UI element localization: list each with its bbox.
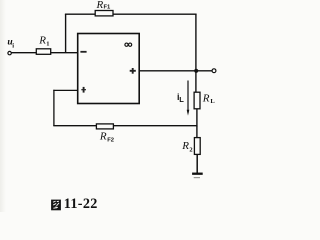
label R1 (38, 35, 49, 48)
svg-text:11-22: 11-22 (64, 196, 98, 212)
current iL arrow (187, 81, 190, 116)
ground (192, 174, 203, 178)
svg-text:R: R (181, 140, 189, 152)
op-amp U1 body (78, 34, 140, 104)
wire RF2 to right node (113, 125, 197, 127)
caption figure 11-22 (51, 196, 98, 212)
label RL (202, 93, 216, 106)
resistor RL (194, 92, 200, 109)
wire output node down to RL (195, 71, 197, 93)
op-amp gain infinity symbol (125, 43, 132, 46)
wire left corner to RF2 (53, 125, 96, 127)
wire junction up to RF1 (vertical) (65, 14, 67, 53)
junction dot output node (194, 69, 198, 73)
svg-text:R: R (38, 35, 46, 47)
op-amp non-inverting input plus sign (81, 87, 86, 93)
label RF1 (96, 0, 112, 11)
wire RF1 to right corner (113, 13, 197, 15)
wire RL to RF2 node (196, 109, 198, 127)
label iL (177, 92, 184, 104)
svg-text:L: L (179, 95, 184, 104)
resistor R2 (194, 138, 200, 155)
wire op-amp output to terminal (140, 70, 213, 72)
wire R1 to op-amp inverting input (51, 52, 78, 54)
svg-text:i: i (12, 42, 14, 49)
wire left vertical down to RF2 (53, 90, 55, 126)
resistor R1 (36, 49, 50, 55)
svg-text:R: R (96, 0, 104, 11)
wire top left to RF1 (65, 13, 96, 15)
svg-text:R: R (202, 93, 210, 105)
resistor RF1 (95, 11, 113, 16)
wire op-amp noninverting input to left corner (53, 89, 77, 91)
op-amp inverting input minus sign (80, 51, 86, 53)
wire input terminal to R1 (11, 52, 36, 54)
svg-text:2: 2 (189, 146, 192, 153)
label RF2 (99, 131, 114, 144)
node uo output terminal (212, 69, 216, 73)
svg-text:R: R (99, 131, 107, 143)
wire node down to R2 (196, 126, 198, 138)
wire R2 to ground (196, 154, 198, 173)
label R2 (181, 140, 192, 154)
node ui input terminal (8, 51, 11, 54)
op-amp output plus sign (130, 68, 136, 74)
svg-text:F2: F2 (107, 138, 114, 144)
svg-text:F1: F1 (104, 5, 112, 11)
resistor RF2 (96, 124, 113, 129)
wire right vertical RF1 down to output node (195, 14, 197, 71)
svg-text:1: 1 (46, 41, 49, 48)
svg-text:L: L (210, 98, 215, 105)
label ui (7, 38, 14, 50)
